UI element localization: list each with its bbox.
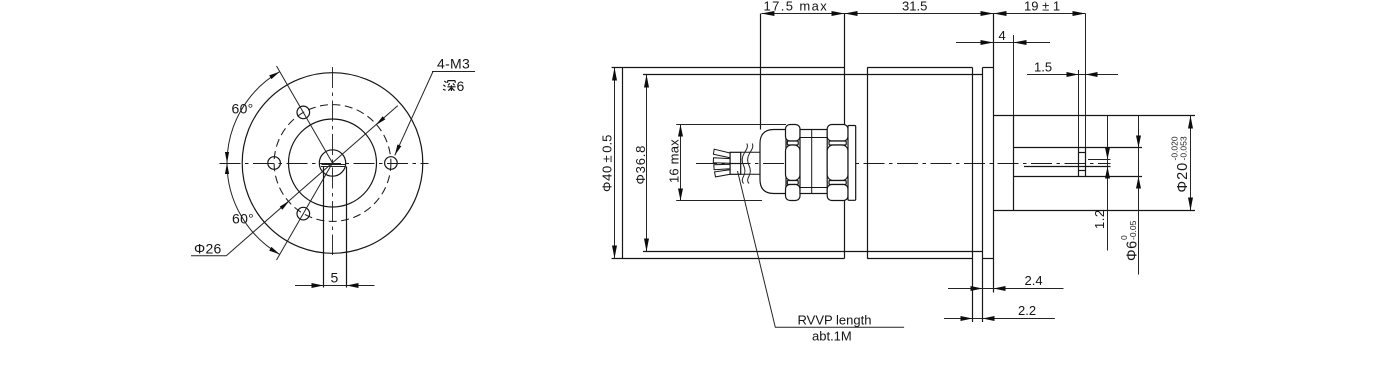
dim 1.5 arrow left — [1067, 72, 1079, 77]
shaft flat line — [1024, 166, 1111, 168]
lower arc arrow at 180 deg end — [225, 163, 229, 174]
svg-text:Φ36.8: Φ36.8 — [633, 145, 648, 185]
wire 4 — [715, 170, 731, 177]
cable break wavy line 2 — [748, 144, 753, 184]
joint line 1 / 17.5max extension — [760, 14, 762, 130]
svg-text:1.5: 1.5 — [1034, 60, 1052, 75]
motor front face — [867, 68, 869, 259]
dim Φ36.8 arrow top — [644, 75, 649, 88]
svg-text:2.4: 2.4 — [1025, 273, 1043, 288]
dim 5 arrow left — [312, 283, 324, 288]
gland sleeve outer — [800, 130, 827, 194]
svg-text:Φ26: Φ26 — [194, 241, 222, 257]
groove left extension (1.5 dim) — [1078, 70, 1080, 148]
svg-text:16 max: 16 max — [667, 139, 682, 183]
gland hex nut 2 — [827, 125, 848, 201]
body bottom line Φ40 (gearbox) — [612, 258, 845, 260]
cable sheath mid line — [730, 163, 741, 165]
svg-text:abt.1M: abt.1M — [812, 329, 852, 344]
cable outline to gland bottom — [741, 173, 760, 175]
front view shaft circle Φ6 — [319, 150, 345, 176]
M3 hole at 120 deg — [297, 106, 310, 119]
joint line 2 lower — [844, 201, 846, 259]
upper arc arrow at 120 deg end — [269, 72, 280, 80]
dim Φ36.8 arrow bottom — [644, 239, 649, 252]
dim 2.4 line — [948, 288, 1064, 290]
dim 19±1 arrow left — [994, 11, 1007, 16]
4-M3 leader arrow — [395, 144, 402, 155]
svg-text:4: 4 — [999, 28, 1006, 43]
dim 16max ext top — [676, 124, 786, 126]
dim 4 extension right — [1013, 35, 1015, 116]
svg-text:4-M3: 4-M3 — [437, 56, 470, 72]
svg-text:1.2: 1.2 — [1092, 209, 1107, 229]
svg-text:6: 6 — [457, 78, 465, 94]
top dimension line — [761, 13, 1085, 15]
dim Φ20 arrow bottom — [1188, 198, 1193, 211]
dim Φ40 arrow top — [612, 68, 617, 81]
dim 1.2 arrow bottom — [1105, 167, 1110, 179]
wire 1 — [713, 149, 730, 158]
groove right extension (1.5 and 19 dims) — [1085, 14, 1087, 148]
flange top edge — [983, 67, 994, 69]
svg-text:60°: 60° — [232, 101, 254, 117]
dim 16max line — [680, 125, 682, 201]
svg-text:60°: 60° — [232, 211, 254, 227]
svg-text:2.2: 2.2 — [1018, 303, 1036, 318]
front view vertical centerline — [332, 67, 334, 255]
4-M3 underline — [432, 71, 475, 73]
dim Φ40 label — [600, 135, 615, 192]
dim Φ20 label with tolerance — [1170, 136, 1192, 192]
dim 1.5 line — [1027, 74, 1118, 76]
dim 16max arrow top — [678, 125, 683, 137]
dim 2.2 arrow left — [961, 316, 973, 321]
dim Φ6 arrow top — [1136, 136, 1141, 148]
dim 31.5 arrow left — [845, 11, 858, 16]
gland sleeve inner top — [800, 137, 827, 139]
4-M3 leader line — [395, 72, 433, 156]
dim 31.5 arrow right — [981, 11, 994, 16]
dim 16 max label — [667, 139, 682, 183]
boss Φ20 bottom / Φ20 extension line — [994, 210, 1195, 212]
dim Φ20 arrow top — [1188, 116, 1193, 129]
slot right line — [346, 167, 348, 288]
cable outline to gland top — [741, 151, 760, 153]
dim Φ36.8 line — [646, 75, 648, 252]
shaft end / Φ6 dim line — [1138, 116, 1140, 275]
depth 6 label (CJK shen + 6) — [443, 81, 456, 91]
dim Φ40 line — [614, 68, 616, 259]
dim 16max ext bottom — [676, 200, 762, 202]
svg-text:31.5: 31.5 — [902, 0, 927, 14]
groove root top — [1079, 152, 1086, 154]
dim Φ6 label with tolerance — [1119, 220, 1141, 261]
boss rear face / 4 dim edge — [1013, 116, 1015, 211]
dim 5 arrow right — [347, 283, 359, 288]
60 deg dimension arc (upper) — [227, 72, 280, 163]
front view outer circle Φ40 body — [242, 73, 423, 254]
gearbox front face — [622, 68, 624, 259]
gland sleeve inner bottom — [800, 187, 827, 189]
upper arc arrow at 180 deg end — [225, 152, 229, 163]
front view inner boss circle — [289, 119, 377, 207]
M3 hole at 0 deg — [385, 157, 398, 170]
dim 19±1 arrow right — [1073, 11, 1086, 16]
Φ26 label underline — [191, 255, 226, 257]
M3 hole at 180 deg — [268, 157, 281, 170]
wire 3 — [714, 164, 730, 170]
gland sleeve joint — [811, 130, 813, 194]
shaft Φ6 bottom line — [1014, 176, 1143, 178]
M3 hole at 240 deg — [297, 207, 310, 220]
dim 4 line — [956, 42, 1050, 44]
dim 17.5max arrow left — [761, 11, 774, 16]
body line Φ36.8 top — [643, 74, 983, 76]
side view centerline — [696, 163, 1111, 165]
dim 1.2 line — [1107, 116, 1109, 251]
groove root bottom — [1079, 170, 1086, 172]
dim 5 line — [295, 285, 375, 287]
dim 1.5 arrow right — [1086, 72, 1098, 77]
1.2 upper extension line — [1088, 159, 1111, 161]
boss Φ20 top / Φ20 extension line — [994, 115, 1195, 117]
svg-text:-0.05: -0.05 — [1128, 220, 1138, 240]
Φ26 diameter line — [226, 106, 398, 256]
dim 2.2 arrow right — [983, 316, 995, 321]
dim 4 arrow right — [1014, 40, 1027, 45]
60 deg dimension arc (lower) — [227, 163, 280, 254]
lower arc arrow at 240 deg end — [269, 247, 280, 255]
flange rear face / 19 extension — [993, 14, 995, 293]
dim 2.2 line — [944, 318, 1055, 320]
radial extension line through 120 deg hole — [277, 66, 333, 163]
svg-text:Φ6: Φ6 — [1125, 240, 1141, 261]
dim 17.5max arrow right — [832, 11, 845, 16]
svg-text:-0.053: -0.053 — [1179, 136, 1189, 160]
svg-text:17.5 max: 17.5 max — [764, 0, 829, 14]
cable break wavy line 1 — [742, 144, 747, 184]
groove left wall — [1078, 148, 1080, 177]
flange bottom edge — [983, 258, 994, 260]
wire 2 — [713, 158, 730, 163]
svg-text:19 ± 1: 19 ± 1 — [1024, 0, 1060, 14]
shaft flat chord lower — [321, 166, 346, 168]
Φ26 arrow upper-right — [376, 116, 386, 125]
body top line Φ40 (motor) — [867, 67, 972, 69]
svg-text:Φ20: Φ20 — [1175, 162, 1191, 193]
shaft Φ6 top line — [1014, 147, 1143, 149]
Φ26 arrow lower-left — [280, 201, 290, 210]
dim 2.4 arrow right — [994, 286, 1006, 291]
dim 1.2 label — [1092, 209, 1107, 229]
cable gland dome body — [760, 130, 786, 194]
body bottom line Φ40 (motor) — [867, 258, 972, 260]
dim Φ36.8 label — [633, 145, 648, 185]
body top line Φ40 (gearbox) — [612, 67, 845, 69]
gland hex nut 1 — [786, 125, 801, 201]
body line Φ36.8 bottom — [643, 251, 983, 253]
flange front face / extension — [982, 68, 984, 323]
RVVP leader line — [738, 171, 905, 327]
dim 1.2 arrow top — [1105, 148, 1110, 160]
front view bolt circle Φ26 (dashed) — [274, 105, 391, 222]
dim Φ6 arrow bottom — [1136, 177, 1141, 189]
svg-text:RVVP length: RVVP length — [798, 313, 872, 328]
slot left line — [323, 167, 325, 288]
gland washer — [848, 126, 856, 201]
dim 4 arrow left — [981, 40, 994, 45]
front view horizontal centerline — [220, 163, 429, 165]
cable sheath rectangle — [730, 152, 741, 174]
dim 16max arrow bottom — [678, 189, 683, 201]
dim Φ20 line — [1190, 116, 1192, 211]
radial extension line through 240 deg hole — [277, 163, 333, 260]
motor rear face / 2.2 extension — [972, 68, 974, 323]
shaft flat chord upper — [322, 164, 346, 166]
dim 2.4 arrow left — [971, 286, 983, 291]
dim Φ40 arrow bottom — [612, 246, 617, 259]
groove right wall — [1085, 148, 1087, 177]
svg-text:5: 5 — [331, 270, 339, 286]
joint line 2 upper / 31.5 extension — [844, 14, 846, 125]
svg-text:Φ40 ± 0.5: Φ40 ± 0.5 — [600, 135, 615, 192]
